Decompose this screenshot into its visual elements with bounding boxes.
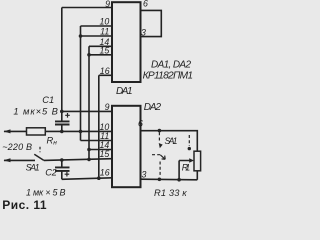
svg-text:~220 В: ~220 В: [2, 142, 32, 152]
svg-text:6: 6: [143, 0, 148, 9]
chip DA2 body: [112, 106, 141, 187]
svg-text:DA1, DA2: DA1, DA2: [151, 60, 191, 71]
svg-text:9: 9: [105, 0, 110, 9]
wire DA1 pin11: [81, 35, 113, 37]
resistor R1 body: [194, 151, 201, 171]
switch SA1 to R1 dashed link: [188, 135, 190, 146]
capacitor C1 plates: [55, 121, 70, 124]
node DA2 pin14 junction: [87, 148, 91, 152]
resistor Rn body: [27, 128, 46, 135]
wire Rn to DA2 pin10: [45, 130, 112, 132]
node C1 bottom / pin10 wire junction: [60, 130, 64, 134]
capacitor C2 leads: [61, 160, 63, 179]
svg-text:10: 10: [100, 16, 110, 26]
svg-text:6: 6: [138, 118, 143, 128]
wire pin16 rail: [62, 178, 112, 180]
switch SA1 right arrowhead upper: [159, 143, 163, 148]
capacitor C1 bottom lead: [61, 125, 63, 132]
potentiometer R1 wiper arrowhead: [189, 158, 194, 162]
svg-text:9: 9: [105, 102, 110, 112]
svg-text:3: 3: [141, 27, 146, 37]
wire DA1 pin6-pin3 loop: [141, 10, 162, 36]
svg-text:C2: C2: [45, 168, 58, 178]
resistor R1 bottom lead: [196, 171, 198, 180]
svg-text:R1: R1: [182, 163, 191, 173]
wire DA1 pin14: [89, 45, 112, 47]
switch SA1 right dashed link upper: [158, 132, 160, 142]
switch SA1 right arrowhead middle: [160, 155, 165, 159]
capacitor C1 plus sign: [65, 113, 70, 118]
wire net16 vertical: [98, 75, 100, 178]
chip DA1 body: [112, 2, 141, 82]
wire mains bottom to SA1: [4, 159, 35, 161]
node pin16 rail junction: [97, 176, 101, 180]
wire DA2 pin11: [81, 140, 113, 142]
node net10-11 / pin10 wire junction: [79, 130, 83, 134]
wire net14-15 vertical: [88, 46, 90, 159]
node SA1 bottom rail junction: [158, 178, 162, 182]
wire DA2 pin3 rail: [141, 178, 198, 181]
node R1 wiper rail junction: [177, 178, 181, 182]
switch SA1 left link dashes: [39, 147, 41, 152]
node DA1 pin15 junction: [87, 53, 91, 57]
svg-text:1 мк×5 В: 1 мк×5 В: [13, 106, 58, 117]
node C2 top junction: [60, 158, 64, 162]
svg-text:15: 15: [100, 149, 110, 159]
svg-text:КР1182ПМ1: КР1182ПМ1: [143, 71, 194, 82]
switch SA1 right dashed link lower: [159, 162, 161, 177]
wire mains top to Rn: [4, 130, 27, 132]
wire DA1 pin9: [62, 7, 112, 9]
svg-text:SA1: SA1: [165, 136, 178, 146]
wire DA1 pin16: [99, 74, 112, 76]
node C1 top / DA2 pin9 junction: [60, 110, 64, 114]
svg-text:1 мк × 5 В: 1 мк × 5 В: [26, 187, 66, 197]
svg-text:DA1: DA1: [116, 86, 133, 97]
svg-text:16: 16: [100, 167, 110, 177]
switch SA1 right dashed link middle: [152, 154, 160, 156]
node DA1 pin11 junction: [79, 34, 83, 38]
svg-text:Рис. 11: Рис. 11: [2, 198, 47, 212]
node DA2 pin15 junction: [87, 158, 91, 162]
capacitor C2 plates: [55, 167, 70, 171]
svg-text:3: 3: [142, 170, 147, 180]
wire DA1 pin15: [89, 54, 112, 56]
svg-text:11: 11: [100, 27, 109, 37]
svg-text:SA1: SA1: [26, 163, 40, 173]
capacitor C2 plus sign: [65, 172, 70, 177]
wire net9 vertical: [61, 8, 63, 122]
svg-text:15: 15: [100, 46, 110, 56]
wire DA2 pin14: [89, 149, 112, 151]
wire net10-11 vertical: [80, 26, 82, 141]
potentiometer R1 wiper wire: [179, 161, 191, 180]
svg-text:DA2: DA2: [144, 102, 162, 113]
wire DA2 pin9: [62, 110, 112, 112]
arrow mains top: [4, 129, 11, 133]
arrow mains bottom: [4, 158, 11, 162]
pin number labels: [100, 0, 148, 180]
svg-text:16: 16: [100, 66, 110, 76]
wire DA2 pin6 to R1: [141, 131, 198, 152]
switch SA1 left blade: [34, 154, 44, 160]
svg-text:R1 33 к: R1 33 к: [154, 188, 187, 198]
node SA1-R1 link dot: [188, 147, 191, 150]
wire DA1 pin10: [81, 25, 113, 27]
wire DA2 pin15 / mains feed: [44, 159, 112, 161]
node DA2 pin6 / SA1 junction: [158, 129, 162, 133]
svg-text:C1: C1: [42, 95, 54, 105]
